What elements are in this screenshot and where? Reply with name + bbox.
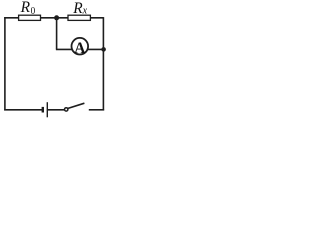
svg-text:x: x [82,6,88,17]
svg-text:A: A [74,40,86,57]
svg-text:R: R [20,0,31,16]
svg-text:0: 0 [31,5,36,17]
svg-text:R: R [72,0,83,17]
